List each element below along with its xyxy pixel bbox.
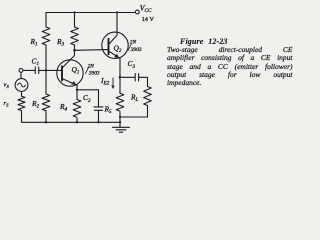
svg-text:R4: R4	[59, 102, 68, 113]
svg-text:rS: rS	[4, 100, 10, 107]
svg-text:R2: R2	[31, 99, 40, 110]
svg-text:C3: C3	[128, 59, 136, 70]
svg-text:RL: RL	[130, 92, 139, 103]
svg-text:2N: 2N	[88, 64, 95, 70]
svg-text:R3: R3	[56, 37, 65, 48]
svg-text:C1: C1	[32, 57, 39, 68]
svg-text:R1: R1	[30, 37, 38, 48]
svg-text:3903: 3903	[88, 71, 100, 77]
svg-text:VCC: VCC	[140, 3, 152, 13]
svg-text:R5: R5	[104, 104, 113, 115]
svg-text:IE2: IE2	[100, 76, 110, 87]
svg-text:2N: 2N	[130, 39, 137, 45]
svg-text:vS: vS	[4, 82, 10, 89]
svg-text:C2: C2	[83, 93, 91, 104]
svg-text:Q1: Q1	[72, 65, 80, 76]
svg-text:Q2: Q2	[114, 43, 122, 54]
svg-text:14 V: 14 V	[142, 16, 155, 23]
svg-text:3903: 3903	[130, 47, 142, 53]
